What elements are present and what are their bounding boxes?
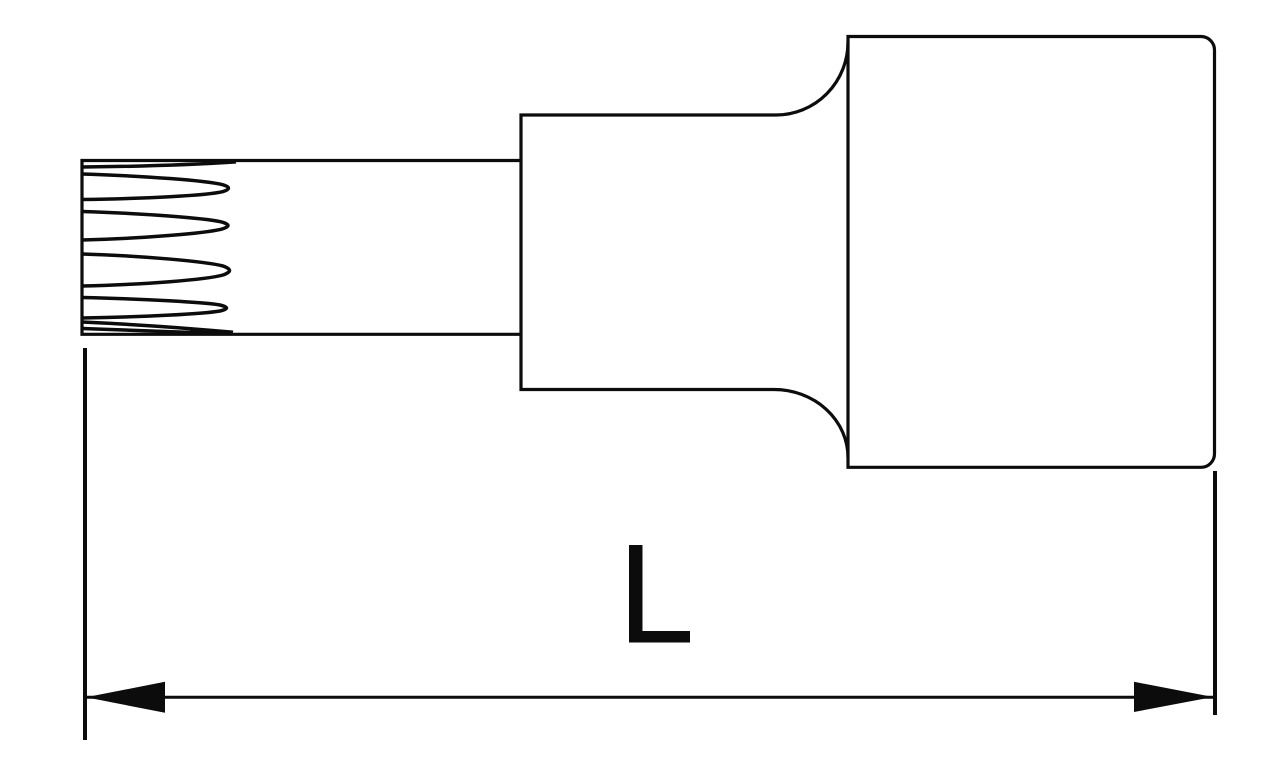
left extension line: [83, 348, 87, 740]
shank outline: [82, 161, 521, 335]
right arrowhead: [1134, 682, 1213, 712]
spline tooth D: [82, 298, 227, 319]
socket body: [848, 37, 1215, 468]
left arrowhead: [86, 682, 165, 713]
spline tooth A: [82, 174, 229, 200]
label L: [629, 545, 690, 643]
spline sliver top: [82, 162, 236, 167]
bottom fillet: [774, 390, 848, 458]
spline tooth B: [82, 212, 228, 241]
bottom wedge fill: [190, 330, 237, 335]
spline tooth C: [82, 254, 230, 286]
spline sliver bottom line 2: [82, 329, 227, 334]
collar (drive adapter) outline: [521, 115, 776, 390]
dimension line: [86, 696, 1213, 699]
spline sliver bottom line 1: [82, 322, 233, 332]
top fillet: [776, 42, 848, 115]
right extension line: [1213, 471, 1217, 715]
